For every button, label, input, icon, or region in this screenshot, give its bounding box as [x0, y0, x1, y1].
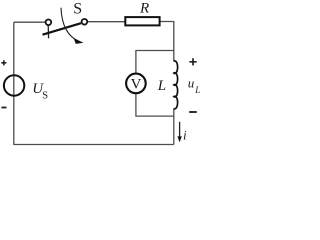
voltage source US circle	[4, 75, 24, 95]
switch S left terminal	[46, 20, 52, 26]
current arrow i	[179, 122, 181, 138]
polarity - of source	[1, 107, 6, 109]
switch closing arc arrow	[61, 8, 80, 42]
polarity + of source	[1, 60, 6, 65]
svg-text:u: u	[188, 76, 195, 91]
svg-text:L: L	[157, 78, 166, 94]
resistor R	[125, 17, 159, 25]
svg-text:R: R	[139, 1, 149, 17]
svg-text:S: S	[73, 0, 82, 17]
wire: left rail and bottom rail of main loop	[14, 22, 174, 144]
wire: resistor to top-right corner, down to inductor top	[160, 22, 174, 62]
svg-text:i: i	[183, 127, 187, 142]
svg-text:S: S	[42, 91, 48, 102]
wire: switch to resistor	[87, 21, 125, 23]
polarity - of uL	[189, 111, 197, 113]
svg-text:L: L	[194, 85, 200, 95]
wire: top-left segment to switch	[14, 21, 46, 23]
switch pivot tick	[47, 25, 49, 38]
switch S right terminal	[82, 19, 88, 25]
inductor L coil	[174, 61, 178, 109]
wire: voltmeter branch bottom	[136, 93, 174, 116]
polarity + of uL	[189, 58, 196, 65]
svg-text:V: V	[131, 77, 142, 93]
voltmeter V	[126, 74, 146, 94]
wire: inductor bottom to bottom-right corner	[173, 108, 175, 144]
wire: voltmeter branch top	[136, 51, 174, 74]
switch blade	[43, 23, 82, 35]
